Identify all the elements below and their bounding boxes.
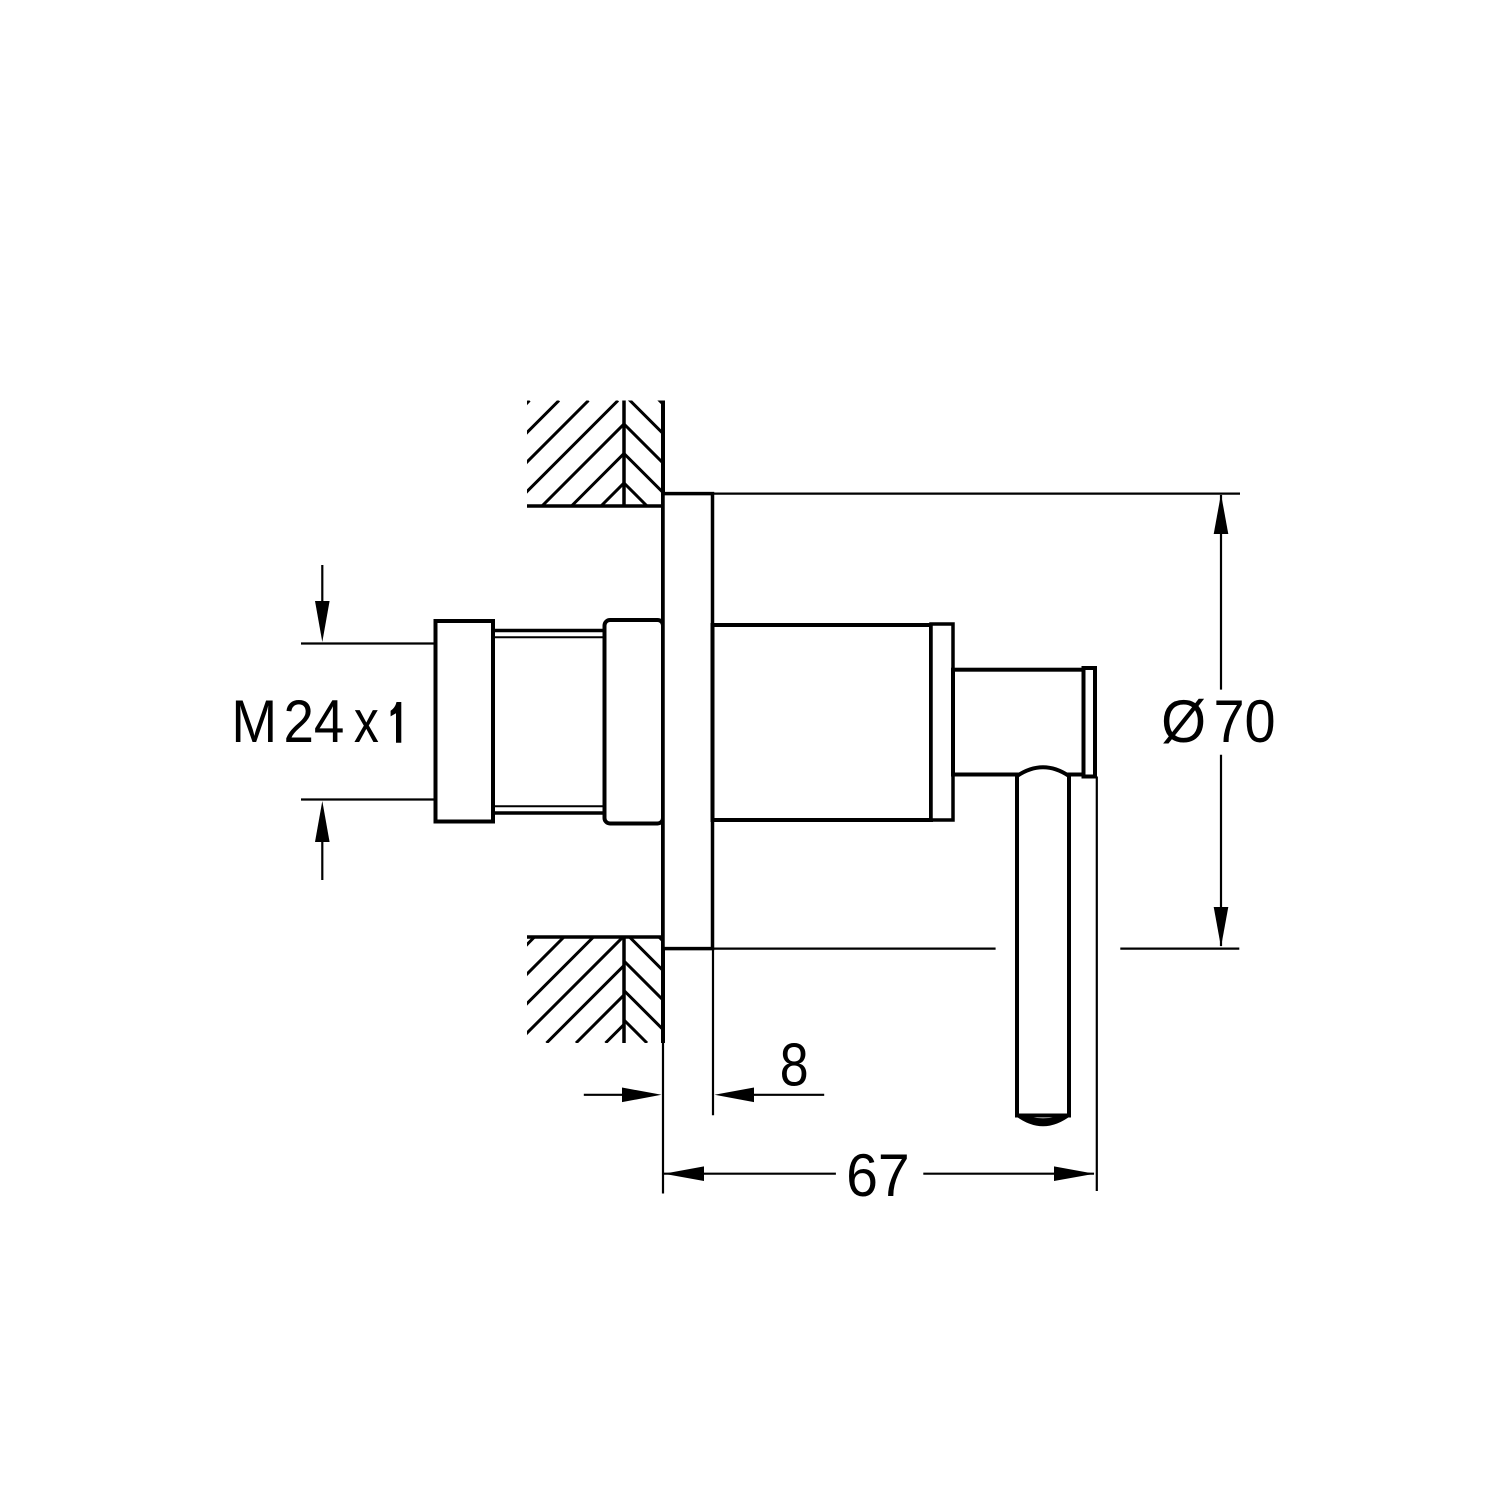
svg-text:8: 8	[780, 1031, 809, 1098]
svg-text:x: x	[354, 688, 379, 755]
svg-text:70: 70	[1214, 689, 1276, 755]
svg-text:Ø: Ø	[1161, 689, 1206, 755]
svg-text:M: M	[231, 689, 277, 756]
svg-text:67: 67	[846, 1143, 910, 1210]
svg-text:24: 24	[284, 689, 345, 756]
